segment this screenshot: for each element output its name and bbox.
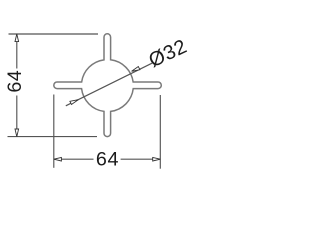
- right arrow of horizontal dimension: [153, 157, 161, 161]
- svg-text:64: 64: [4, 70, 26, 93]
- up arrow of vertical dimension: [15, 34, 19, 42]
- bottom extension line of vertical dimension: [8, 136, 98, 138]
- leader arrow lower-left (points up-right at circle): [70, 100, 78, 105]
- leader arrow upper-right (points down-left at circle): [132, 67, 140, 72]
- left extension line of horizontal dimension: [53, 95, 55, 168]
- vertical dimension line lower segment: [16, 96, 18, 137]
- down arrow of vertical dimension: [15, 129, 19, 137]
- svg-text:Ø32: Ø32: [146, 36, 191, 73]
- right extension line of horizontal dimension: [159, 95, 161, 169]
- diameter leader line: [66, 63, 152, 106]
- horizontal dimension line left segment: [54, 158, 94, 160]
- svg-text:64: 64: [96, 149, 119, 171]
- vertical dimension line upper segment: [16, 34, 18, 69]
- cross fitting body outline: [54, 34, 162, 137]
- left arrow of horizontal dimension: [54, 157, 62, 161]
- top extension line of vertical dimension: [9, 33, 99, 35]
- horizontal dimension line right segment: [121, 158, 161, 160]
